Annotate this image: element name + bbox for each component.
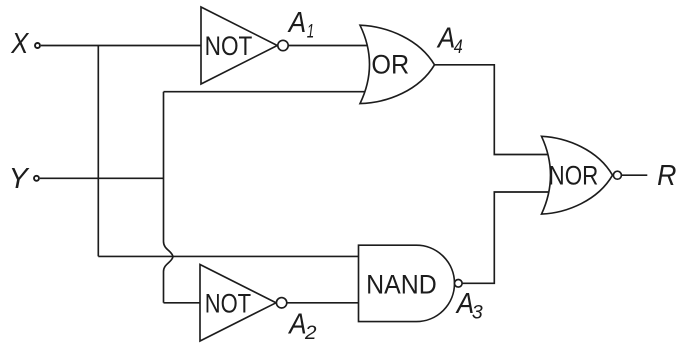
input terminal Y <box>34 176 39 181</box>
svg-text:R: R <box>657 160 676 192</box>
NOT gate U1 (top) triangle <box>201 7 277 84</box>
NAND gate U4 <box>359 245 455 321</box>
NOT gate U2 (bottom) triangle <box>200 265 276 342</box>
svg-text:X: X <box>10 28 29 60</box>
NOR gate U5 <box>542 136 613 214</box>
svg-text:A: A <box>287 7 306 39</box>
svg-text:3: 3 <box>472 302 483 324</box>
wire Y branch vertical with crossover hop <box>164 92 174 303</box>
svg-text:2: 2 <box>304 322 317 344</box>
input terminal X <box>35 43 40 48</box>
svg-text:Y: Y <box>9 163 31 195</box>
wire OR bottom input horizontal <box>164 91 373 93</box>
svg-text:OR: OR <box>371 49 409 80</box>
wire X branch vertical to NAND top input <box>97 46 99 257</box>
NOT gate U1 output bubble <box>278 40 288 50</box>
svg-text:A: A <box>287 309 306 341</box>
wire A1: NOT1 output to OR top input <box>288 45 372 47</box>
svg-text:NOT: NOT <box>205 287 251 318</box>
wire Y input horizontal <box>40 177 164 179</box>
wire A2: NOT2 output to NAND bottom input <box>287 302 362 304</box>
NOT gate U2 output bubble <box>276 298 286 308</box>
wire R: NOR output <box>622 174 648 176</box>
svg-text:NAND: NAND <box>366 268 437 299</box>
svg-text:4: 4 <box>454 36 463 58</box>
NOR gate U5 output bubble <box>613 171 621 179</box>
wire A3: NAND output to NOR bottom input <box>462 192 548 283</box>
wire A4: OR output to NOR top input <box>435 65 549 155</box>
OR gate U3 <box>360 25 435 103</box>
wire NOT2 input horizontal <box>164 302 202 304</box>
NAND gate U4 output bubble <box>455 280 463 288</box>
svg-text:NOT: NOT <box>205 30 253 61</box>
svg-text:NOR: NOR <box>549 160 599 191</box>
svg-text:1: 1 <box>307 21 315 43</box>
wire X input horizontal <box>41 45 201 47</box>
svg-text:A: A <box>436 22 455 54</box>
wire NAND top input horizontal <box>98 255 362 257</box>
